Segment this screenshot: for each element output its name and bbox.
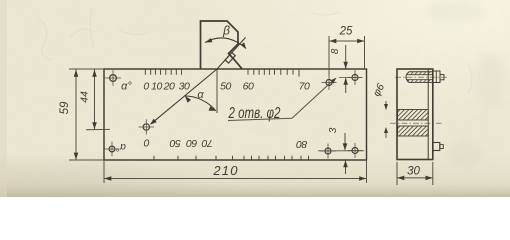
screw centerline [395,76,448,78]
screw pin [440,75,444,80]
hole top-right B [352,75,358,81]
hole middle (pivot target) [143,124,149,130]
dimension 3 [344,133,346,150]
side view body outline [397,69,433,160]
pointer bracket [201,21,243,69]
extension line top-left [69,68,104,70]
extension line mid hole row [86,128,110,130]
side view inner plate line [427,70,429,160]
plate outline (front view 210x59) [104,69,367,160]
slot hatching [407,72,409,74]
extension line right edge down [366,160,368,183]
beta angle arc [205,38,246,49]
extension lines for 25 [328,36,330,76]
hole bottom-left [109,146,115,152]
lower screw pin [440,145,444,149]
dimension 210 [104,178,367,180]
boss centerline [390,122,442,124]
screw head [433,71,440,83]
hole top-right A [326,80,332,86]
faint print-through marks [0,0,7,197]
extension line bottom-left [69,159,104,161]
hole bottom-right B [352,148,358,154]
slot (bullet shape) [406,72,433,83]
alpha angle arc [185,96,216,111]
screw shaft lines [407,74,433,76]
extension line bottom-right hole row [318,150,364,152]
hole top-left [110,75,117,82]
dimension phi6 [385,101,387,110]
dimension 30 [396,162,398,185]
dimension 25 [329,40,365,42]
hole bottom-right A [325,148,331,154]
scale ticks top-right group [248,70,299,77]
lower screw head [433,143,440,151]
extension line left edge down [103,160,105,183]
leader underline [228,118,292,120]
dimension 8 [345,45,347,69]
pointer arm upper segment [217,38,246,70]
pivot extension line below [216,70,218,114]
leader line to hole [292,82,331,118]
dimension 44 [94,70,96,130]
extension line top-right hole row [339,77,362,79]
dimension 59 [75,70,77,160]
hatched band lower [398,126,429,136]
hatched band upper [398,110,429,121]
scale ticks bottom [154,156,309,160]
scale ticks top-left group [145,70,181,75]
pointer slider rectangle [225,53,235,64]
pointer arm lower segment [152,69,218,123]
